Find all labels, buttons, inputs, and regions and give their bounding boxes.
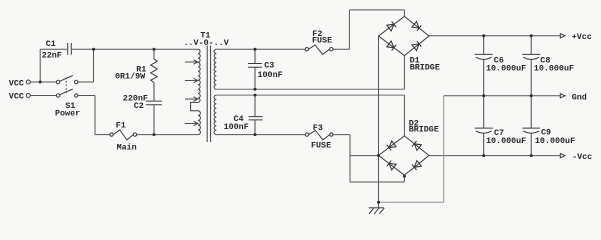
svg-text:0R1/9W: 0R1/9W xyxy=(115,71,146,81)
svg-text:VCC: VCC xyxy=(9,78,24,88)
svg-text:100nF: 100nF xyxy=(224,122,249,132)
svg-text:100nF: 100nF xyxy=(258,70,283,80)
svg-text:C1: C1 xyxy=(46,39,56,49)
svg-text:BRIDGE: BRIDGE xyxy=(410,63,440,73)
svg-text:Main: Main xyxy=(117,142,137,152)
svg-text:FUSE: FUSE xyxy=(311,141,331,151)
svg-text:BRIDGE: BRIDGE xyxy=(409,125,439,135)
svg-text:Gnd: Gnd xyxy=(572,92,587,102)
svg-text:..V-0-..V: ..V-0-..V xyxy=(184,38,230,48)
svg-text:10.000uF: 10.000uF xyxy=(534,64,574,74)
svg-text:10.000uF: 10.000uF xyxy=(486,136,526,146)
svg-text:FUSE: FUSE xyxy=(312,36,332,46)
svg-text:22nF: 22nF xyxy=(42,50,62,60)
svg-text:F1: F1 xyxy=(116,120,126,130)
svg-text:Power: Power xyxy=(55,109,80,119)
svg-text:10.000uF: 10.000uF xyxy=(486,64,526,74)
svg-text:10.000uF: 10.000uF xyxy=(535,136,575,146)
svg-text:C2: C2 xyxy=(134,101,144,111)
svg-text:VCC: VCC xyxy=(9,92,24,102)
svg-text:-Vcc: -Vcc xyxy=(572,152,592,162)
svg-text:F3: F3 xyxy=(313,123,323,133)
svg-text:+Vcc: +Vcc xyxy=(572,32,592,42)
